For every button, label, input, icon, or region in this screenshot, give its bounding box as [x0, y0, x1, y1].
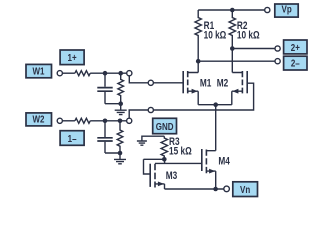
box W2	[26, 113, 52, 126]
arrow M3 source	[158, 182, 164, 187]
transistor M2	[246, 71, 248, 93]
svg-text:2+: 2+	[291, 42, 300, 53]
svg-text:W1: W1	[33, 66, 45, 77]
wire 2- line	[198, 60, 275, 62]
label boxes	[26, 4, 307, 197]
node W2 cap	[103, 119, 108, 124]
svg-text:GND: GND	[156, 121, 174, 132]
node W1 res	[118, 71, 123, 76]
capacitor C2 plates	[97, 138, 112, 141]
wire W2 row to node	[90, 120, 126, 122]
terminal 2+	[275, 46, 280, 51]
ground G2	[114, 153, 126, 164]
svg-text:1+: 1+	[68, 52, 77, 63]
wire tail down	[215, 105, 217, 151]
svg-text:15 kΩ: 15 kΩ	[169, 145, 192, 157]
transistor M4	[201, 149, 203, 171]
resistor R2	[229, 10, 235, 73]
wire W1 row to node	[90, 72, 127, 74]
resistor W1 series	[75, 71, 90, 76]
transistor M3	[149, 164, 151, 187]
wire top rail Vp	[198, 9, 264, 11]
node Vn rail	[213, 187, 218, 192]
node W1 gnd	[118, 101, 123, 106]
node W1 cap	[103, 71, 108, 76]
wire 1- jog to M2 gate	[129, 83, 253, 118]
wire 2+ line	[232, 48, 275, 50]
wire bottom rail Vn	[165, 188, 225, 190]
terminal 1- b	[148, 107, 153, 112]
resistor R1	[195, 10, 201, 73]
box Vn	[233, 182, 258, 197]
resistor R3	[161, 136, 167, 159]
svg-text:M3: M3	[166, 170, 177, 182]
box W1	[26, 64, 52, 77]
arrow M1 source	[192, 89, 198, 94]
svg-text:Vn: Vn	[240, 184, 250, 195]
terminal 1+ b	[148, 80, 153, 85]
capacitor C2 leads	[105, 121, 120, 153]
terminal 1- a	[127, 118, 132, 123]
terminal Vn	[224, 186, 230, 192]
open terminal circles	[57, 7, 280, 191]
resistor W1 shunt	[118, 73, 124, 104]
ground G3 and wire to R3 top	[137, 136, 164, 145]
svg-text:Vp: Vp	[281, 4, 292, 15]
node common source	[213, 102, 218, 107]
box 2+	[284, 40, 307, 54]
wire source interconnect	[198, 104, 232, 106]
label texts	[33, 4, 300, 196]
arrow M2 source	[232, 89, 238, 94]
arrow M4 source	[209, 169, 215, 174]
svg-text:10 kΩ: 10 kΩ	[237, 29, 260, 41]
wire W2 row	[62, 120, 75, 122]
box Vp	[275, 4, 298, 17]
svg-text:M2: M2	[217, 77, 228, 89]
capacitor C1 leads	[105, 73, 121, 104]
svg-text:2–: 2–	[291, 58, 300, 69]
box GND	[153, 118, 177, 133]
wire W1 row	[62, 72, 75, 74]
box 2-	[284, 56, 307, 70]
terminal 1+ a	[127, 71, 132, 76]
wire bias node	[144, 159, 165, 174]
transistor M1	[182, 71, 184, 93]
wire bias line to M4 gate	[155, 162, 202, 164]
node W2 gnd	[118, 151, 123, 156]
box 1+	[60, 50, 84, 65]
box 1-	[60, 131, 84, 146]
svg-text:1–: 1–	[68, 133, 77, 144]
svg-text:W2: W2	[33, 114, 45, 125]
node 2+ tap	[230, 46, 235, 51]
node 2- tap	[196, 59, 201, 64]
capacitor C1 plates	[97, 88, 112, 92]
node bias R3	[162, 157, 167, 162]
node rail-R2	[230, 8, 235, 13]
node W2 res	[118, 119, 123, 124]
svg-text:M1: M1	[200, 77, 212, 89]
terminal W1	[57, 71, 62, 76]
wire 1+ jog	[129, 76, 183, 83]
terminal W2	[57, 118, 62, 123]
terminal Vp	[265, 7, 270, 12]
resistor W2 series	[75, 118, 90, 123]
terminal 2-	[275, 59, 280, 64]
ground G1	[115, 104, 127, 115]
svg-text:10 kΩ: 10 kΩ	[204, 29, 227, 41]
resistor W2 shunt	[117, 121, 123, 153]
svg-text:M4: M4	[218, 155, 230, 167]
